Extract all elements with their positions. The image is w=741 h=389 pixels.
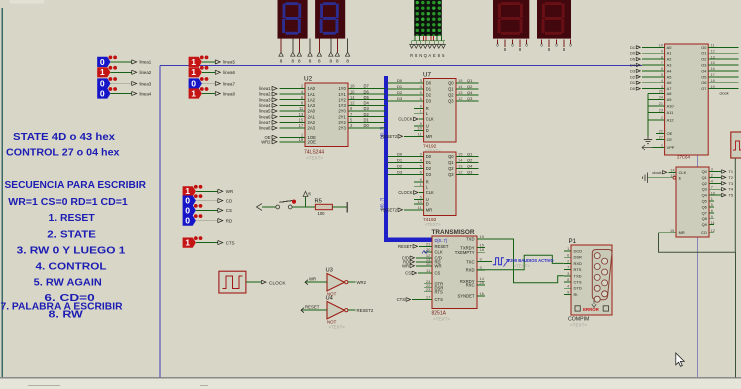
- svg-text:D2: D2: [630, 75, 635, 79]
- DCLOCK generator at right edge: [731, 132, 741, 158]
- svg-text:21: 21: [426, 242, 431, 247]
- svg-text:Q1: Q1: [702, 175, 707, 180]
- pin TXRDY (15) of U5: [477, 247, 485, 249]
- wire U2 pin 5 to bus D1: [348, 121, 386, 123]
- indicator dots of CD: [194, 194, 198, 198]
- svg-text:CTS: CTS: [226, 240, 235, 245]
- svg-text:8: 8: [336, 59, 339, 64]
- pin SYNDET (16) of U5: [477, 295, 485, 297]
- svg-text:17: 17: [299, 123, 304, 128]
- svg-text:D2: D2: [426, 166, 432, 171]
- svg-text:RESET2: RESET2: [381, 134, 398, 139]
- wire bus tap D3 into: [388, 174, 424, 176]
- 7-segment display DS1: [278, 0, 308, 39]
- svg-text:Q3: Q3: [448, 99, 454, 104]
- logic state "linea6" value 1: [189, 66, 236, 77]
- svg-text:linea7: linea7: [259, 120, 271, 125]
- svg-text:A0: A0: [667, 45, 673, 50]
- svg-text:ERROR: ERROR: [583, 307, 600, 312]
- svg-text:1k: 1k: [308, 192, 312, 196]
- svg-text:D0: D0: [364, 123, 370, 128]
- svg-text:Q0: Q0: [448, 81, 454, 86]
- input wire RESET: [301, 309, 327, 311]
- svg-text:27: 27: [659, 136, 663, 140]
- pin wires of DS1 and DS2: [281, 39, 348, 52]
- input wire WR: [305, 281, 327, 283]
- svg-text:D3: D3: [426, 99, 432, 104]
- svg-text:<TEXT>: <TEXT>: [306, 156, 323, 161]
- counter U6 4017: [643, 167, 734, 237]
- svg-text:OE: OE: [667, 131, 673, 136]
- svg-text:18: 18: [711, 79, 715, 83]
- pin TXD (3) of P1: [564, 275, 571, 277]
- svg-text:24: 24: [659, 96, 663, 100]
- svg-text:A12: A12: [667, 118, 674, 123]
- svg-text:D3: D3: [397, 96, 403, 101]
- svg-text:E: E: [433, 53, 436, 58]
- wire U5 RXD to P1 TXD: [477, 255, 564, 269]
- svg-text:CS: CS: [405, 271, 411, 276]
- svg-text:RXD: RXD: [466, 268, 475, 273]
- output wire WR2: [348, 281, 356, 283]
- wire RD: [196, 220, 218, 222]
- svg-text:8: 8: [318, 59, 321, 64]
- wire A4 of EPROM: [642, 70, 665, 72]
- wire bus tap D1 into U7: [388, 88, 424, 90]
- wire A5 of EPROM: [642, 76, 665, 78]
- svg-text:linea6: linea6: [223, 70, 235, 75]
- svg-text:1Y3: 1Y3: [338, 103, 346, 108]
- svg-text:<TEXT>: <TEXT>: [425, 222, 441, 227]
- svg-text:linea1: linea1: [259, 86, 271, 91]
- net tag CD: [218, 199, 223, 203]
- svg-text:Q2: Q2: [448, 166, 454, 171]
- svg-text:D3: D3: [630, 69, 635, 73]
- svg-text:Q2: Q2: [467, 158, 473, 163]
- wire output Q2: [456, 168, 479, 170]
- svg-text:5: 5: [711, 203, 713, 207]
- svg-text:clock: clock: [652, 170, 661, 175]
- svg-text:linea1: linea1: [140, 60, 152, 65]
- svg-text:<TEXT>: <TEXT>: [514, 264, 531, 269]
- svg-text:1: 1: [185, 238, 190, 248]
- svg-text:TRANSMISOR: TRANSMISOR: [432, 229, 475, 236]
- indicator dots of linea1: [109, 56, 113, 60]
- wire U2 pin 16 to bus D6: [348, 93, 386, 95]
- indicator dots of linea6: [200, 66, 204, 70]
- svg-text:MR: MR: [426, 134, 432, 139]
- svg-text:O3: O3: [701, 63, 706, 68]
- wire R5 to terminal: [332, 206, 347, 208]
- net tag linea2: [132, 70, 137, 74]
- svg-text:D5: D5: [630, 58, 635, 62]
- net tag linea1: [132, 60, 137, 64]
- svg-text:D0: D0: [426, 81, 432, 86]
- wire U5 TXD to P1 RXD: [477, 239, 564, 283]
- svg-text:15: 15: [458, 152, 463, 157]
- svg-text:1Y1: 1Y1: [338, 92, 346, 97]
- svg-text:D0: D0: [397, 152, 403, 157]
- svg-text:MR: MR: [679, 230, 685, 235]
- svg-text:RESET2: RESET2: [381, 207, 398, 212]
- svg-text:Q6: Q6: [702, 204, 707, 209]
- net tag linea6: [215, 70, 220, 74]
- svg-text:D: D: [426, 202, 429, 207]
- bus D[0..7] thick blue: [386, 76, 432, 240]
- svg-text:1A1: 1A1: [308, 92, 316, 97]
- svg-text:Q3: Q3: [467, 96, 473, 101]
- svg-text:18: 18: [480, 247, 485, 252]
- clock generator DCLOCK: [219, 271, 286, 293]
- svg-text:linea5: linea5: [259, 109, 271, 114]
- svg-text:Q4: Q4: [702, 193, 708, 198]
- svg-text:12: 12: [350, 101, 355, 106]
- indicator dots of linea5: [200, 56, 204, 60]
- svg-text:A6: A6: [667, 80, 672, 85]
- svg-text:0: 0: [100, 88, 105, 98]
- wire linea3 into U2 pin 6: [280, 99, 306, 101]
- indicator dots of linea2: [109, 66, 113, 70]
- wire C/D pin 12 of U5: [416, 257, 432, 259]
- resistor R5: [315, 199, 333, 217]
- svg-text:D5: D5: [364, 95, 370, 100]
- LED dot-matrix display: [414, 0, 442, 38]
- svg-text:D4: D4: [364, 101, 370, 106]
- svg-text:D2: D2: [364, 112, 370, 117]
- 7-segment display DS3: [493, 0, 529, 39]
- logic state "linea2" value 1: [97, 66, 152, 77]
- wire O2 of EPROM: [708, 58, 738, 60]
- wire linea3: [111, 83, 132, 85]
- pin Q8 of U6: [709, 218, 714, 220]
- pin RXC (25) of U5: [477, 284, 485, 286]
- baud annotation waveform (blue): [493, 258, 555, 269]
- 7-segment display DS2: [315, 0, 345, 39]
- svg-text:CO: CO: [701, 230, 707, 235]
- logic state "linea3" value 0: [97, 77, 152, 89]
- 7-segment display DS4: [537, 0, 571, 39]
- svg-text:21: 21: [659, 102, 663, 106]
- wire RESET2 into: [404, 209, 424, 211]
- svg-text:CLK: CLK: [426, 117, 434, 122]
- wire A3 of EPROM: [642, 64, 665, 66]
- svg-text:CS: CS: [226, 208, 232, 213]
- logic state "RD" value 0: [183, 214, 233, 226]
- wire E of U6 to ground: [673, 176, 676, 179]
- pin TXEMPTY (18) of U5: [477, 251, 485, 253]
- wire MR of U6 to clock column: [659, 158, 736, 252]
- wire CTS pin 17 of U5: [412, 299, 432, 301]
- svg-text:16: 16: [480, 291, 485, 296]
- wire U2 pin 3 to bus D0: [348, 127, 386, 129]
- wire O6 of EPROM: [708, 82, 738, 84]
- indicator dots of CS: [194, 204, 198, 208]
- svg-text:15: 15: [711, 61, 715, 65]
- svg-text:linea4: linea4: [140, 91, 152, 96]
- net tag linea3: [132, 81, 137, 85]
- svg-text:O1: O1: [701, 51, 706, 56]
- svg-text:16: 16: [711, 67, 715, 71]
- wire output Q3: [456, 174, 479, 176]
- svg-text:0: 0: [100, 57, 105, 67]
- indicator dots of WR: [194, 185, 198, 189]
- pin terminal triangles under DS1/DS2: [279, 52, 350, 56]
- svg-text:U4: U4: [326, 296, 334, 302]
- svg-text:linea3: linea3: [259, 97, 271, 102]
- pin wires and labels of DS4: [540, 39, 572, 52]
- wire RD pin 13 of U5: [416, 261, 432, 263]
- svg-text:14: 14: [670, 169, 674, 173]
- svg-text:8: 8: [330, 59, 333, 64]
- svg-text:RI: RI: [574, 292, 578, 297]
- svg-text:8: 8: [298, 59, 301, 64]
- svg-text:5: 5: [661, 73, 663, 77]
- wire linea2: [111, 71, 132, 73]
- svg-text:RESET: RESET: [435, 244, 449, 249]
- svg-text:<TEXT>: <TEXT>: [433, 317, 450, 322]
- svg-text:A8: A8: [667, 91, 672, 96]
- EPROM U1 27C64: [630, 44, 738, 160]
- wire output Q0: [456, 156, 479, 158]
- svg-text:<TEXT>: <TEXT>: [570, 323, 587, 328]
- wire CTS: [196, 242, 218, 244]
- wire U2 pin 14 to bus D5: [348, 99, 386, 101]
- svg-text:A11: A11: [667, 110, 674, 115]
- counter: [381, 152, 478, 228]
- svg-text:2Y3: 2Y3: [338, 126, 346, 131]
- svg-text:SECUENCIA PARA ESCRIBIR: SECUENCIA PARA ESCRIBIR: [5, 180, 147, 191]
- svg-text:17: 17: [426, 295, 431, 300]
- svg-text:P1: P1: [569, 238, 577, 245]
- svg-text:RXC: RXC: [466, 283, 475, 288]
- svg-text:Q3: Q3: [467, 170, 473, 175]
- svg-text:TXC: TXC: [466, 259, 474, 264]
- svg-text:10: 10: [417, 199, 422, 204]
- wire linea5 into U2 pin 11: [280, 110, 306, 112]
- wire bus tap D3 into U7: [388, 100, 424, 102]
- svg-text:WR2: WR2: [357, 280, 367, 285]
- wire A10 of EPROM tied low: [648, 105, 665, 107]
- svg-text:CLOCK: CLOCK: [398, 117, 412, 122]
- wire output Q1: [456, 162, 479, 164]
- inverter U4: [301, 296, 374, 330]
- pin Q7 of U6: [709, 212, 714, 214]
- buffer U2 74LS244: [259, 76, 385, 161]
- ground mark under DB9: [592, 300, 596, 308]
- pin Q4 of U6: [709, 194, 721, 196]
- svg-text:13: 13: [299, 112, 304, 117]
- svg-text:O6: O6: [701, 80, 706, 85]
- wire blue horizontal (linea bus to EPROM A3): [160, 65, 642, 67]
- logic state "WR" value 1: [183, 185, 234, 197]
- svg-text:T5: T5: [729, 193, 734, 198]
- svg-text:A1: A1: [667, 51, 672, 56]
- svg-text:100: 100: [318, 211, 326, 216]
- pin CO of U6: [709, 232, 714, 234]
- svg-text:0: 0: [185, 196, 190, 206]
- svg-text:T1: T1: [729, 169, 734, 174]
- net tag linea7: [215, 81, 220, 85]
- svg-text:STATE 4D o 43 hex: STATE 4D o 43 hex: [13, 132, 116, 143]
- status bar separator: [0, 378, 741, 389]
- svg-text:1A0: 1A0: [308, 86, 316, 91]
- svg-text:13: 13: [458, 164, 463, 169]
- svg-text:13: 13: [670, 174, 674, 178]
- svg-text:Q2: Q2: [702, 181, 707, 186]
- svg-text:23: 23: [659, 109, 663, 113]
- svg-text:CLK: CLK: [435, 250, 443, 255]
- svg-text:2Y1: 2Y1: [338, 114, 346, 119]
- svg-text:8: 8: [292, 59, 295, 64]
- mouse cursor: [676, 353, 684, 366]
- wire RESET pin 21 of U5: [419, 245, 432, 247]
- pin labels under DS1/DS2: [280, 59, 350, 64]
- svg-text:A10: A10: [667, 104, 675, 109]
- svg-text:2. STATE: 2. STATE: [47, 230, 96, 241]
- svg-text:linea3: linea3: [140, 81, 152, 86]
- wire bus tap D2 into: [388, 168, 424, 170]
- svg-text:Q4: Q4: [467, 90, 473, 95]
- pin Q5 of U6: [709, 200, 714, 202]
- wire A12 of EPROM tied low: [648, 119, 665, 121]
- svg-text:Q2: Q2: [467, 84, 473, 89]
- svg-text:12: 12: [458, 96, 463, 101]
- svg-text:0: 0: [185, 216, 190, 226]
- wire linea5: [202, 61, 215, 63]
- svg-text:DCD: DCD: [574, 249, 583, 254]
- svg-text:CONTROL 27 o 04 hex: CONTROL 27 o 04 hex: [6, 148, 120, 159]
- svg-text:2OE: 2OE: [308, 140, 317, 145]
- svg-text:D3: D3: [364, 106, 370, 111]
- svg-text:10: 10: [426, 261, 431, 266]
- svg-text:RTS: RTS: [574, 267, 582, 272]
- svg-text:A3: A3: [667, 63, 672, 68]
- pin RTS (7) of P1: [564, 269, 571, 271]
- pin RI (9) of P1: [564, 293, 571, 295]
- svg-text:WR: WR: [309, 276, 316, 281]
- svg-text:Q2: Q2: [448, 93, 454, 98]
- pin Q9 of U6: [709, 224, 714, 226]
- counter U7: [381, 72, 478, 154]
- svg-text:D7: D7: [364, 84, 370, 89]
- svg-text:4. CONTROL: 4. CONTROL: [36, 262, 107, 273]
- pin RXD (3) of U5: [477, 269, 485, 271]
- pin wires and labels of DS3: [496, 39, 528, 52]
- push switch: [257, 200, 297, 211]
- svg-text:Q1: Q1: [448, 160, 454, 165]
- wire A11 of EPROM tied low: [648, 112, 665, 114]
- terminal bar: [346, 202, 348, 213]
- wire linea1 into U2 pin 2: [280, 87, 306, 89]
- svg-text:WR: WR: [435, 264, 442, 269]
- wire bus tap D2 into U7: [388, 94, 424, 96]
- svg-text:15: 15: [670, 229, 674, 233]
- net tag linea4: [132, 91, 137, 95]
- svg-text:CTS: CTS: [397, 297, 406, 302]
- svg-text:D1: D1: [630, 46, 635, 50]
- svg-text:2: 2: [567, 259, 569, 264]
- svg-text:D1: D1: [397, 158, 403, 163]
- svg-text:D0: D0: [630, 52, 635, 56]
- wire O3 of EPROM: [708, 64, 738, 66]
- svg-text:WR: WR: [226, 189, 233, 194]
- svg-text:2Y0: 2Y0: [338, 109, 346, 114]
- svg-text:13: 13: [711, 55, 715, 59]
- svg-text:A2: A2: [667, 57, 672, 62]
- svg-text:8. RW: 8. RW: [49, 310, 84, 321]
- svg-text:D1: D1: [364, 118, 370, 123]
- svg-text:15: 15: [299, 118, 304, 123]
- wire DTR pin 24 of U5: [424, 283, 432, 285]
- net tag linea5: [215, 60, 220, 64]
- svg-text:D0: D0: [397, 78, 403, 83]
- ground for address pins: [644, 136, 652, 144]
- pin TXC (9) of U5: [477, 261, 485, 263]
- svg-text:A: A: [428, 53, 431, 58]
- svg-text:1: 1: [191, 88, 196, 98]
- wire A7 of EPROM: [642, 88, 665, 90]
- net tag CS: [218, 208, 223, 212]
- svg-text:0: 0: [185, 205, 190, 215]
- svg-text:8: 8: [346, 59, 349, 64]
- svg-text:Q1: Q1: [448, 87, 454, 92]
- svg-text:D2: D2: [426, 93, 432, 98]
- svg-text:14: 14: [458, 158, 463, 163]
- svg-text:D1: D1: [397, 84, 403, 89]
- wire linea7 into U2 pin 15: [280, 121, 306, 123]
- svg-text:2Y2: 2Y2: [338, 120, 346, 125]
- svg-text:0: 0: [100, 78, 105, 88]
- svg-text:10: 10: [659, 44, 663, 48]
- svg-text:O7: O7: [701, 86, 706, 91]
- svg-text:clock: clock: [720, 90, 729, 95]
- svg-text:27C64: 27C64: [677, 154, 690, 159]
- svg-text:O0: O0: [701, 45, 707, 50]
- net tag WR: [218, 189, 223, 193]
- indicator dots of RD: [194, 214, 198, 218]
- pin labels of LED matrix: [410, 53, 445, 58]
- wire U7 output Q3: [456, 100, 479, 102]
- svg-text:O4: O4: [701, 68, 707, 73]
- svg-text:7: 7: [567, 265, 569, 270]
- svg-text:10: 10: [711, 191, 715, 195]
- DB9 connector shape: [592, 250, 612, 300]
- svg-text:8: 8: [567, 277, 569, 282]
- svg-text:R5: R5: [315, 199, 322, 205]
- svg-text:D0: D0: [426, 154, 432, 159]
- logic state "linea1" value 0: [97, 56, 152, 68]
- svg-text:3: 3: [661, 85, 663, 89]
- svg-text:RESET: RESET: [305, 304, 320, 309]
- svg-text:14: 14: [350, 95, 355, 100]
- svg-text:U7: U7: [423, 72, 431, 79]
- serial port P1 COMPIM: [564, 238, 612, 328]
- wire U2 pin 7 to bus D2: [348, 116, 386, 118]
- wire U2 pin 9 to bus D3: [348, 110, 386, 112]
- wire clock generator output: [246, 281, 261, 283]
- svg-text:TXD: TXD: [466, 237, 474, 242]
- svg-text:4: 4: [661, 79, 663, 83]
- svg-text:2A0: 2A0: [308, 109, 316, 114]
- svg-text:D3: D3: [397, 170, 403, 175]
- net tag RD: [218, 219, 223, 223]
- svg-text:16: 16: [350, 89, 355, 94]
- wire bus tap D1 into: [388, 162, 424, 164]
- svg-text:9: 9: [567, 290, 569, 295]
- svg-text:linea2: linea2: [140, 70, 152, 75]
- svg-text:1Y0: 1Y0: [338, 86, 346, 91]
- wire linea4: [111, 93, 132, 95]
